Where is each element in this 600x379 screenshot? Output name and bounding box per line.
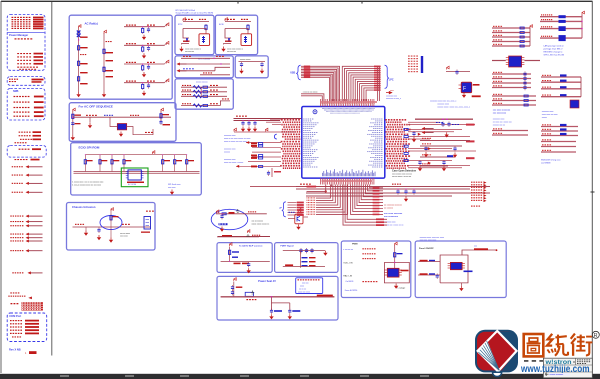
resistor R bbox=[520, 45, 524, 47]
section box AC Rail(s) bbox=[69, 15, 172, 99]
rpack row 1 labels bbox=[182, 85, 184, 86]
title block small text bbox=[577, 359, 578, 360]
page frame right border bbox=[591, 1, 593, 374]
wire usb net bbox=[301, 73, 334, 101]
top fan stub number row bbox=[320, 101, 377, 103]
svg-text:xxxx: xxxx bbox=[300, 286, 304, 288]
legend box: COM Port (dashed) bbox=[7, 313, 47, 342]
wire lan net bbox=[540, 20, 582, 22]
panel chip label right bbox=[464, 271, 473, 273]
filter row 1 ground bbox=[142, 35, 146, 40]
capacitor C bbox=[523, 80, 526, 85]
wire ec right net bbox=[408, 160, 452, 162]
svg-text:xxxx xx xx xxxx xxxxx xx xxxx: xxxx xx xx xxxx xxxxx xx xxxx bbox=[224, 138, 250, 140]
svg-text:SMB: SMB bbox=[13, 90, 19, 93]
SIO wire row 2 with arrow bbox=[177, 63, 187, 66]
filter row 3 ground bbox=[142, 72, 146, 77]
net arrow out bbox=[418, 133, 421, 136]
wire usb net bbox=[301, 68, 338, 101]
svg-text:xxx xxx xxx: xxx xxx xxx bbox=[227, 51, 236, 53]
wire lpc net bbox=[342, 66, 376, 101]
wire ec right net bbox=[408, 136, 470, 138]
filter row 2 pin flag bbox=[167, 41, 169, 44]
SIO wire row 3 with arrow bbox=[177, 69, 187, 72]
wire ec left net bbox=[252, 156, 281, 158]
wire ec bottom net right bbox=[363, 185, 383, 197]
legend rows group 4 bbox=[19, 132, 21, 133]
legend rows group C bbox=[10, 292, 12, 293]
reset cap bbox=[455, 70, 458, 75]
wire net bbox=[492, 27, 530, 29]
T-cell loop wire bbox=[225, 29, 231, 39]
rpack row 2 wire bbox=[181, 91, 227, 93]
wire lpc net bbox=[362, 86, 377, 101]
chassis switch component bbox=[144, 217, 151, 230]
wire lan net bbox=[540, 28, 582, 30]
watermark chinese char 3 (jie - street) bbox=[571, 334, 593, 356]
pwm loop wire bbox=[384, 262, 409, 283]
svg-text:xx xxxxxxx xxxxxxx: xx xxxxxxx xxxxxxx bbox=[384, 205, 403, 207]
filter row 2 labels bbox=[126, 43, 128, 44]
legend box: group 3 (dashed) bbox=[7, 88, 45, 120]
green highlight box bbox=[121, 168, 148, 187]
ACOFF left chain bbox=[72, 111, 74, 135]
svg-text:xxx xxx: xxx xxx bbox=[302, 283, 309, 285]
wire usb net bbox=[301, 77, 329, 101]
group A vertical bus bbox=[529, 28, 531, 46]
wire deep net bbox=[345, 185, 387, 223]
SIO wire row 4 bbox=[200, 74, 230, 76]
capacitor C term bbox=[442, 160, 445, 165]
pdrt caps row bbox=[299, 248, 302, 253]
svg-text:xxxxxxx xxxx: xxxxxxx xxxx bbox=[493, 119, 505, 121]
section box PDRT Signal bbox=[275, 243, 338, 273]
T-cell mosfet sub-box bbox=[241, 34, 252, 46]
capacitor C term bbox=[424, 146, 427, 151]
filter row 1 capacitor C bbox=[147, 27, 150, 32]
SPI chip label bbox=[127, 182, 144, 184]
svg-text:ECIO SPI ROM: ECIO SPI ROM bbox=[79, 146, 100, 150]
wire ec left net bbox=[248, 161, 281, 163]
svg-text:PWM: PWM bbox=[352, 244, 358, 246]
frame zone tick top 2 bbox=[361, 1, 363, 4]
wire net bbox=[301, 96, 322, 101]
wire lpc net bbox=[364, 88, 377, 101]
right red text lower bbox=[471, 206, 473, 207]
wire ec bottom net bbox=[316, 185, 333, 201]
section box To 3A I/O BoP connect bbox=[217, 243, 272, 273]
wire ec bottom net bbox=[316, 185, 348, 215]
pseal branch cap C1 bbox=[270, 309, 273, 314]
watermark dashed line bbox=[524, 360, 589, 362]
svg-text:F: F bbox=[463, 86, 466, 92]
wire ec right net bbox=[408, 138, 430, 140]
legend group2 bar bbox=[32, 79, 44, 81]
lpc wire name labels bbox=[374, 66, 381, 68]
filter row 2 wire bbox=[124, 44, 165, 46]
net label bbox=[376, 221, 384, 223]
wire above PWM box bbox=[217, 236, 259, 238]
wire usb net bbox=[301, 66, 340, 101]
net label bbox=[373, 208, 380, 210]
rpack row 3 labels bbox=[182, 94, 184, 95]
wire ec bottom net right bbox=[365, 185, 383, 194]
filter row 1 wire bbox=[124, 26, 165, 28]
pseal branch loop bbox=[272, 297, 290, 303]
resistor R series bbox=[259, 155, 263, 157]
SPI flash chip U10 bbox=[128, 170, 141, 180]
wire net bbox=[492, 36, 530, 38]
capacitor C bbox=[523, 85, 526, 90]
wire ec left net bbox=[236, 165, 281, 167]
pseal info sub-box bbox=[296, 278, 323, 294]
lan right bus bbox=[581, 15, 583, 39]
wire net bbox=[541, 135, 578, 137]
IC U1 index circle bbox=[313, 110, 317, 114]
svg-text:ECB: ECB bbox=[219, 24, 224, 26]
section box SIO clocks bbox=[175, 56, 233, 78]
bop ground bbox=[247, 268, 251, 273]
wire ec left net bbox=[252, 146, 281, 148]
page footer strip bbox=[0, 374, 600, 379]
wire ec right net bbox=[408, 131, 454, 133]
section box ECIO SPI ROM bbox=[71, 143, 202, 195]
resistor R pullup bbox=[162, 155, 164, 172]
wire net bbox=[541, 96, 581, 98]
wire ec bottom net right bbox=[370, 185, 383, 188]
pseal branch grounds bbox=[269, 314, 273, 319]
resistor R bbox=[520, 41, 524, 43]
page frame top border bbox=[1, 0, 593, 2]
legend net arrow single bbox=[12, 272, 13, 273]
RC delay wire bbox=[216, 213, 267, 215]
rpack row 4 wire bbox=[181, 105, 220, 107]
T-cell mosfet symbol bbox=[244, 36, 247, 43]
net label bbox=[373, 211, 380, 213]
legend group2 text bbox=[9, 79, 11, 80]
reset circuit wires bbox=[446, 71, 470, 73]
T-cell transistor Q bbox=[247, 24, 249, 31]
filter row 4 capacitor C bbox=[147, 83, 150, 88]
net label bbox=[466, 140, 475, 142]
legend small rows bbox=[17, 67, 19, 68]
rpack row 3 wire bbox=[181, 95, 227, 97]
resistor R series bbox=[404, 136, 408, 138]
bop flag pin bbox=[230, 243, 232, 246]
box D ground arrows bbox=[239, 69, 243, 74]
SIO wire row 1 bbox=[181, 57, 230, 59]
SPI pullup top rail bbox=[85, 154, 186, 156]
top-right red pin list text bbox=[408, 56, 410, 57]
wire lan net bbox=[540, 37, 582, 39]
USB bus bracket bbox=[296, 65, 300, 80]
pdrt bottom label bbox=[285, 264, 293, 266]
wire lpc net bbox=[366, 90, 376, 101]
legend revision glyph bbox=[29, 351, 37, 354]
wire ec right net bbox=[408, 121, 440, 123]
net name text bbox=[306, 200, 309, 201]
net label bbox=[373, 196, 380, 198]
net name text bbox=[306, 214, 309, 215]
resistor R pullup bbox=[99, 155, 101, 172]
svg-text:Power Manager: Power Manager bbox=[9, 33, 28, 37]
watermark logo white diamond outline bbox=[478, 331, 517, 372]
pseal info text bbox=[298, 279, 300, 280]
component blue bbox=[559, 26, 566, 31]
RC delay ellipse highlight bbox=[211, 209, 248, 229]
svg-text:xxx xxx xxx: xxx xxx xxx bbox=[185, 51, 194, 53]
net label bbox=[373, 193, 380, 195]
svg-text:xxxx xxxx xx xxxx: xxxx xxxx xx xxxx bbox=[542, 114, 558, 116]
ACOFF IC wires bbox=[110, 117, 117, 126]
ACOFF right chain cap bbox=[160, 111, 162, 122]
wire net bbox=[492, 130, 528, 132]
svg-text:xxxx xxxx: xxxx xxxx bbox=[120, 236, 128, 238]
wire net bbox=[492, 41, 530, 43]
wire net bbox=[541, 146, 576, 148]
section box Power Seal JV bbox=[217, 276, 338, 320]
ACOFF top bus wire bbox=[73, 116, 171, 118]
wire net bbox=[541, 76, 581, 78]
wire net bbox=[492, 104, 536, 106]
svg-text:xxxxxxx xxxx: xxxxxxx xxxx bbox=[437, 104, 449, 106]
pwm chip right label bbox=[401, 270, 409, 272]
second wire below ellipse bbox=[218, 236, 270, 238]
wire ec left net bbox=[252, 151, 281, 153]
wire ec right net bbox=[408, 167, 462, 169]
bop vertical wire bbox=[229, 247, 231, 262]
wire deep net bbox=[347, 185, 387, 220]
svg-text:For AC OFF SEQUENCE: For AC OFF SEQUENCE bbox=[79, 104, 113, 108]
wistron trailing dash bbox=[573, 361, 575, 363]
IC U1 left pin net label column bbox=[281, 119, 283, 121]
wire net bbox=[492, 32, 530, 34]
SPI chip pins bbox=[126, 170, 128, 172]
legend stacked bars bbox=[11, 303, 13, 304]
RC series resistor R bbox=[222, 213, 226, 215]
legend row below group5 bbox=[15, 159, 17, 160]
component small bbox=[447, 155, 453, 157]
resistor R series bbox=[404, 128, 408, 130]
net label bbox=[376, 224, 384, 226]
capacitor C bypass bbox=[247, 121, 250, 126]
filter row 2 capacitor C bbox=[147, 46, 150, 51]
wire ec right net bbox=[408, 128, 462, 130]
IC U1 top pin stub numbers bbox=[321, 102, 322, 105]
wire net bbox=[541, 126, 578, 128]
legend net arrows group A bbox=[12, 166, 13, 167]
svg-text:EC ROM: EC ROM bbox=[128, 184, 136, 186]
svg-text:COM Port: COM Port bbox=[9, 314, 21, 318]
svg-text:xxx xxxx: xxx xxxx bbox=[168, 187, 176, 189]
T-cell transistor Q bbox=[205, 24, 207, 31]
pdrt right arrow down bbox=[323, 251, 327, 256]
rpack row 1 wire bbox=[181, 86, 227, 88]
wire usb net bbox=[301, 76, 331, 101]
legend group3 rows bbox=[14, 96, 16, 97]
svg-text:USB: USB bbox=[290, 72, 295, 75]
section box Panel ON/OFF bbox=[415, 241, 506, 298]
section box resistor packs bbox=[175, 79, 233, 109]
pwm chip U (driver) bbox=[387, 268, 399, 277]
pseal bus right label bbox=[317, 295, 333, 297]
RC net label below bbox=[219, 223, 228, 225]
wire ec bottom net right bbox=[351, 185, 383, 215]
net label bbox=[373, 202, 380, 204]
chassis gnd left bbox=[84, 231, 88, 236]
svg-text:HALT_IN: HALT_IN bbox=[343, 275, 352, 278]
pseal bus below label bbox=[246, 299, 248, 300]
left fan bracket C bbox=[274, 134, 276, 139]
net label bbox=[373, 190, 380, 192]
net label bbox=[466, 124, 475, 126]
wire ec bottom net right bbox=[368, 185, 383, 191]
svg-text:PDRT Signal: PDRT Signal bbox=[280, 246, 294, 248]
IC U1 top pin stubs bbox=[320, 99, 322, 107]
watermark logo navy right corner wedges bbox=[500, 332, 517, 350]
svg-text:xxxxxxx xxxx: xxxxxxx xxxx bbox=[542, 111, 554, 113]
svg-text:x xx xxx xx: x xx xxx xx bbox=[343, 249, 353, 251]
wire net bbox=[492, 100, 536, 102]
svg-text:xx xx xx: xx xx xx bbox=[299, 289, 306, 291]
component bbox=[560, 86, 567, 88]
resistor R pullup bbox=[111, 155, 113, 172]
component bbox=[560, 128, 567, 130]
rpack row 2 resistor RN bbox=[193, 90, 202, 93]
blue label TCLK bbox=[289, 212, 290, 213]
RC cap C delay bbox=[220, 214, 223, 219]
mid bus labels bbox=[236, 116, 238, 117]
legend net arrows group B bbox=[10, 216, 11, 217]
bottom fan junction blob bbox=[325, 190, 327, 192]
wire net bbox=[541, 81, 581, 83]
legend box: power manager (dashed) bbox=[7, 15, 45, 71]
component bbox=[560, 133, 567, 135]
transistor wires bbox=[288, 218, 295, 220]
rpack row 4 labels bbox=[182, 103, 184, 104]
component bbox=[560, 80, 567, 82]
svg-text:xx xxxx xx x xxxx xxx: xx xxxx xx x xxxx xxx bbox=[493, 122, 512, 124]
panel chip U (switch) bbox=[450, 262, 462, 269]
filter row 2 ground bbox=[142, 53, 146, 58]
resistor R series bbox=[404, 145, 408, 147]
resistor R pullup bbox=[186, 155, 188, 172]
svg-text:RTC&EC&PCH Rail: RTC&EC&PCH Rail bbox=[176, 10, 196, 12]
svg-text:To 3A I/O BoP connect: To 3A I/O BoP connect bbox=[239, 245, 263, 248]
panel top wire bbox=[462, 250, 496, 255]
resistor R series bbox=[404, 152, 408, 154]
wire lpc net bbox=[360, 84, 377, 101]
rpack vertical join bbox=[200, 87, 202, 96]
svg-text:Chassis Intrusion: Chassis Intrusion bbox=[72, 205, 96, 209]
wire ec right net bbox=[408, 148, 452, 150]
wire ec left net bbox=[272, 124, 281, 126]
chassis ellipse highlight bbox=[100, 216, 122, 230]
svg-text:REGGRD change to: REGGRD change to bbox=[544, 51, 564, 54]
long bus wire right-mid bbox=[415, 118, 473, 120]
T-cell gate resistor bbox=[228, 38, 230, 42]
svg-text:xxx NNNN: xxx NNNN bbox=[541, 163, 551, 165]
capacitor C term bbox=[418, 160, 421, 165]
wire ec right net bbox=[408, 150, 476, 152]
crystal bus wires bbox=[492, 60, 506, 62]
svg-text:xxxx xxx xxxx x xxxxx: xxxx xxx xxxx x xxxxx bbox=[224, 162, 243, 164]
pseal vert chain bbox=[233, 282, 235, 297]
svg-text:xxxxx xxxxx: xxxxx xxxxx bbox=[196, 82, 208, 84]
resistor R bbox=[524, 100, 528, 102]
pin header J1 navy bar bbox=[421, 56, 423, 73]
resistor R bbox=[524, 104, 528, 106]
legend signal rows bbox=[17, 53, 19, 54]
capacitor C bbox=[523, 76, 526, 81]
wire net vertical bbox=[377, 66, 379, 101]
section box For AC OFF Sequence bbox=[69, 103, 176, 142]
bus small labels bbox=[436, 122, 438, 123]
svg-text:LAN grounge need on: LAN grounge need on bbox=[544, 45, 565, 48]
frame zone tick top 1 bbox=[237, 1, 239, 4]
smbus labels bbox=[300, 184, 302, 185]
chassis wire bus bbox=[73, 226, 151, 228]
svg-text:xxxxxxxx xxxx xxxx xxx_xxxx_x: xxxxxxxx xxxx xxxx xxx_xxxx_x bbox=[430, 101, 456, 103]
left fan flag pins bbox=[266, 128, 268, 131]
capacitor C pull bbox=[396, 189, 399, 194]
svg-text:LPC: LPC bbox=[389, 79, 394, 82]
IC U1 right pin name column (inner) bbox=[371, 118, 372, 121]
filter row 4 wire bbox=[124, 82, 165, 84]
wire ec left net bbox=[270, 119, 281, 121]
wire lpc net bbox=[353, 77, 376, 101]
mid right wires group (y140-175) bbox=[420, 140, 470, 142]
svg-text:1. xxxxx xxxx x xx xx xx xxxxx: 1. xxxxx xxxx x xx xx xx xxxxxxx xxxx bbox=[72, 181, 103, 183]
wire net bbox=[492, 95, 536, 97]
pwm gnd arrow bbox=[394, 284, 398, 289]
lpc out arrow bbox=[386, 91, 392, 93]
wire lpc net bbox=[357, 81, 376, 101]
capacitor C bypass bbox=[253, 121, 256, 126]
svg-text:xxxxxxx xxxx: xxxxxxx xxxx bbox=[224, 149, 236, 151]
page frame left border bbox=[0, 1, 2, 373]
wire net vertical bbox=[378, 66, 380, 101]
filter row 3 capacitor C bbox=[147, 65, 150, 70]
capacitor C term bbox=[412, 131, 415, 136]
net name text bbox=[306, 197, 309, 198]
svg-text:xxxxxx xxxx x xxxx xxx_xxxx_xx: xxxxxx xxxx x xxxx xxx_xxxx_xxxx_x bbox=[437, 107, 470, 109]
SIO label row 3 bbox=[183, 68, 185, 69]
wire lan net bbox=[540, 16, 582, 18]
svg-text:Panel ON/OFF: Panel ON/OFF bbox=[419, 248, 434, 250]
legend box: group 5 (dashed) bbox=[7, 146, 46, 158]
bottom long wire label bbox=[307, 186, 317, 188]
watermark logo white fan (book pages) bbox=[478, 340, 500, 371]
rpack row 3 resistor RN bbox=[193, 95, 202, 98]
panel top label bbox=[474, 248, 488, 250]
filter row 2 resistor bbox=[142, 46, 144, 53]
net name text bbox=[306, 202, 309, 203]
bottom fan transistor Q box bbox=[295, 214, 303, 224]
watermark chinese char 2 (zhi - paper) bbox=[547, 334, 568, 356]
wire ec bottom net bbox=[316, 185, 343, 210]
svg-text:GPIO_NO than ECOB: GPIO_NO than ECOB bbox=[544, 54, 565, 57]
bop labels below bbox=[234, 263, 241, 265]
wire net bbox=[541, 141, 576, 143]
pseal caps stacked bbox=[231, 285, 234, 290]
capacitor C pull bbox=[412, 189, 415, 194]
wire net bbox=[541, 151, 576, 153]
svg-text:Case Open Detection: Case Open Detection bbox=[392, 170, 417, 173]
net arrow out bbox=[428, 147, 431, 150]
filter row 3 labels bbox=[126, 62, 128, 63]
rpack row 1 resistor RN bbox=[193, 86, 202, 89]
